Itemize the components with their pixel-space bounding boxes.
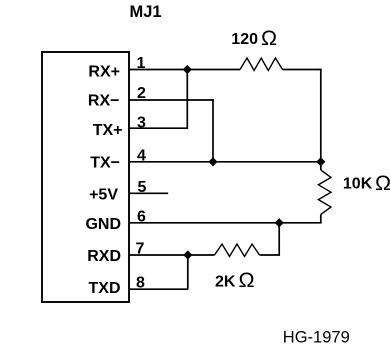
junction node A [183,65,192,74]
wire pin7 horizontal to 2K resistor [129,254,215,256]
wire pin8 vertical up to node E [187,255,189,289]
svg-text:TX+: TX+ [93,122,123,139]
wire vertical right side down to node B [320,69,322,162]
svg-text:RX+: RX+ [88,64,120,81]
wire from 2K right end to node D vertical [260,254,281,256]
svg-text:HG-1979: HG-1979 [283,329,350,347]
svg-text:Ω: Ω [239,268,255,292]
wire pin1 horizontal to 120-ohm resistor [129,69,240,71]
svg-text:TXD: TXD [89,280,121,297]
wire pin4 horizontal to node B [129,161,321,163]
svg-text:Ω: Ω [375,171,391,195]
svg-text:GND: GND [85,216,121,233]
junction node C [208,157,217,166]
wire pin2 vertical down to pin4 wire [212,99,214,162]
resistor R 2K ohm [215,244,260,257]
svg-text:TX−: TX− [90,155,120,172]
svg-text:+5V: +5V [89,186,118,203]
svg-text:Ω: Ω [261,26,277,50]
svg-text:RX−: RX− [88,93,120,110]
wire pin8 horizontal [129,288,188,290]
wire vertical node D down to 2K level [278,223,280,255]
svg-text:2K: 2K [215,273,236,290]
svg-text:MJ1: MJ1 [130,3,162,21]
svg-text:10K: 10K [343,176,373,193]
resistor R 120 ohm [240,58,283,71]
connector MJ1 box [42,52,129,302]
wire pin3 horizontal [129,127,187,129]
wire pin5 stub [129,192,168,194]
junction node D [275,218,284,227]
svg-text:120: 120 [231,31,258,48]
wire pin6 horizontal to 10K bottom [129,222,322,224]
wire from 120-ohm right end [283,69,322,71]
resistor R 10K ohm vertical with leads [320,162,322,170]
junction node B [316,157,325,166]
wire vertical from node A down to pin3 wire [186,70,188,130]
wire pin2 horizontal [129,99,214,101]
junction node E [183,250,192,259]
svg-text:RXD: RXD [87,248,121,265]
